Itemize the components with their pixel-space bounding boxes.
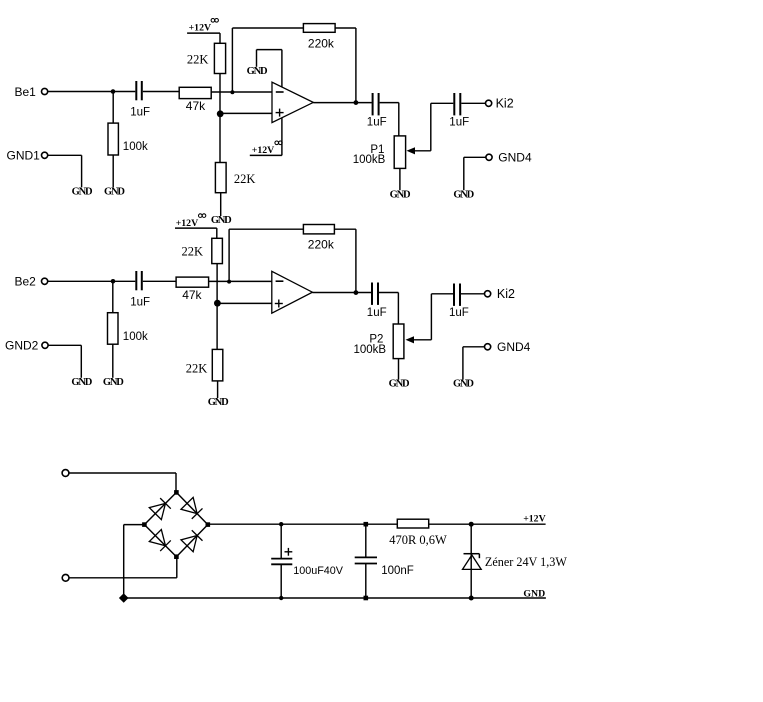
- svg-text:GND: GND: [211, 215, 232, 226]
- wire U1 top pin: [281, 50, 283, 88]
- svg-text:Ki2: Ki2: [497, 287, 515, 301]
- wire 100uF bottom: [280, 564, 282, 598]
- junction feedback tap stage1: [230, 90, 234, 94]
- junction zener bottom: [469, 596, 474, 601]
- wire 100nF bottom: [365, 564, 367, 599]
- svg-text:1uF: 1uF: [130, 297, 150, 309]
- svg-text:47k: 47k: [182, 288, 202, 302]
- svg-text:GND: GND: [390, 189, 411, 200]
- wire 47k to op-amp inverting input: [211, 91, 272, 93]
- wire into ground text: [256, 50, 258, 67]
- node AC input terminal bottom: [62, 574, 69, 581]
- svg-text:GND: GND: [453, 189, 474, 200]
- node Ki2 terminal stage2: [485, 291, 491, 297]
- wire C1 to R 47k: [143, 91, 179, 93]
- wire 100k to ground: [112, 155, 114, 187]
- node AC input terminal top: [62, 470, 69, 477]
- capacitor C 1uF input stage2: [135, 271, 137, 290]
- wire GND2 down: [80, 345, 82, 378]
- wire U2 output: [312, 292, 371, 294]
- wire junction down to R 100k: [112, 92, 114, 124]
- wire +12V down to R 22K stage2: [216, 228, 218, 238]
- wire AC bottom right: [69, 577, 177, 579]
- junction 100nF top: [364, 522, 369, 527]
- op-amp U2 plus sign: [275, 303, 283, 305]
- svg-text:Be1: Be1: [15, 85, 37, 99]
- diode D4 bridge bottom-to-right: [181, 536, 197, 552]
- wire bridge edge bottom-left: [144, 525, 176, 557]
- wire cap to Ki2: [461, 102, 485, 104]
- wire GND4 down stage2: [462, 347, 464, 380]
- wire feedback top stage2: [229, 228, 303, 230]
- junction bridge top corner: [174, 490, 179, 495]
- wire cap to Ki2 stage2: [461, 293, 485, 295]
- wire cap to P1: [380, 102, 399, 104]
- svg-text:22K: 22K: [187, 52, 209, 66]
- zener cathode bar: [464, 553, 480, 555]
- resistor 47k stage1: [179, 87, 211, 98]
- svg-text:Be2: Be2: [15, 275, 37, 289]
- wire AC top down to bridge: [175, 473, 177, 492]
- resistor 22K lower stage2: [212, 349, 223, 381]
- wire 100k to ground stage2: [112, 344, 114, 378]
- wire U1 top pin left: [257, 49, 282, 51]
- wire GND1 right: [48, 154, 82, 156]
- wire wiper to C out stage2: [431, 293, 453, 295]
- svg-text:100uF40V: 100uF40V: [293, 565, 344, 577]
- wire bridge minus down: [123, 525, 125, 598]
- capacitor Ki2 1uF stage2: [453, 284, 455, 306]
- wire P1 wiper: [414, 150, 431, 152]
- wire bridge edge top-right: [176, 492, 207, 524]
- junction bridge left corner: [142, 522, 147, 527]
- svg-text:GND: GND: [208, 397, 229, 408]
- svg-text:GND: GND: [389, 379, 410, 390]
- svg-text:1uF: 1uF: [367, 307, 387, 319]
- svg-text:GND: GND: [72, 186, 93, 197]
- svg-text:22K: 22K: [182, 245, 204, 259]
- node Be2 input terminal: [42, 278, 48, 284]
- junction zener top: [469, 522, 474, 527]
- svg-text:GND: GND: [104, 186, 125, 197]
- resistor 22K upper stage2: [212, 238, 223, 263]
- wire feedback up stage2: [228, 229, 230, 281]
- wire to op-amp noninverting input stage2: [217, 302, 271, 304]
- wire 220k to output drop: [335, 27, 356, 29]
- wire +12V underline stage2: [175, 227, 217, 229]
- wire 100nF top: [365, 524, 367, 557]
- wire +12V underline below U1: [250, 154, 282, 156]
- svg-text:220k: 220k: [308, 36, 335, 50]
- node GND4 terminal stage1: [486, 154, 492, 160]
- capacitor Ki2 1uF stage1: [453, 93, 455, 115]
- capacitor output 1uF stage2: [371, 283, 373, 305]
- wire GND4 down stage1: [463, 157, 465, 190]
- svg-text:1uF: 1uF: [449, 307, 469, 319]
- node GND4 terminal stage2: [485, 344, 491, 350]
- resistor 470R: [397, 519, 428, 528]
- infinity mark top stage1: [211, 19, 215, 23]
- wire down to P2: [397, 293, 399, 325]
- wire bridge left corner out: [124, 524, 145, 526]
- wire P1 to ground: [399, 168, 401, 190]
- potentiometer P1 body: [394, 136, 405, 169]
- junction bridge right corner: [206, 522, 211, 527]
- svg-text:+12V: +12V: [252, 145, 274, 156]
- wire bias chain stage2: [216, 264, 218, 350]
- wire 220k to output drop stage2: [334, 228, 356, 230]
- svg-text:100kB: 100kB: [354, 344, 387, 356]
- wire +12V down to R 22K: [219, 33, 221, 43]
- junction feedback tap stage2: [227, 280, 231, 284]
- wire 47k to op-amp inverting input stage2: [209, 280, 272, 282]
- junction 100uF bottom: [279, 596, 283, 600]
- P1 wiper arrow: [407, 147, 416, 154]
- wire bias chain stage1: [219, 74, 221, 163]
- wire Be2 to input junction: [48, 280, 113, 282]
- infinity mark top stage2: [199, 214, 203, 218]
- wire GND2 right: [48, 344, 81, 346]
- diode D2 bridge top-to-right: [181, 497, 197, 513]
- svg-text:100k: 100k: [123, 141, 148, 153]
- wire P2 wiper: [413, 339, 431, 341]
- wire U1 bottom pin: [281, 118, 283, 155]
- junction noninverting node stage1: [217, 110, 224, 117]
- wire bridge edge bottom-right: [176, 525, 207, 557]
- svg-text:47k: 47k: [186, 99, 206, 113]
- resistor 100k stage1: [108, 123, 118, 155]
- svg-text:GND4: GND4: [497, 340, 531, 354]
- wire feedback down to output: [355, 28, 357, 103]
- wire AC bottom up to bridge: [176, 557, 178, 578]
- wire GND4 left stage1: [464, 156, 486, 158]
- svg-text:100nF: 100nF: [381, 565, 414, 577]
- wire bridge edge top-left: [144, 492, 176, 524]
- junction noninverting node stage2: [214, 300, 221, 307]
- op-amp U2 triangle: [272, 271, 313, 313]
- svg-text:1uF: 1uF: [449, 117, 469, 129]
- node Be1 input terminal: [42, 88, 48, 94]
- svg-text:GND4: GND4: [498, 151, 532, 165]
- svg-text:GND2: GND2: [5, 339, 39, 353]
- P2 wiper arrow: [406, 336, 415, 343]
- junction input node stage2: [111, 279, 116, 284]
- svg-text:GND: GND: [453, 379, 474, 390]
- svg-text:Ki2: Ki2: [496, 97, 514, 111]
- wire wiper up stage2: [430, 294, 432, 340]
- svg-text:470R 0,6W: 470R 0,6W: [389, 533, 447, 547]
- node GND2 terminal: [42, 342, 48, 348]
- 100uF plus sign: [285, 551, 293, 553]
- svg-text:22K: 22K: [186, 362, 208, 376]
- svg-text:+12V: +12V: [189, 23, 211, 34]
- op-amp U1 triangle: [272, 82, 313, 122]
- wire C to R 47k stage2: [143, 280, 176, 282]
- wire U1 output: [313, 102, 372, 104]
- resistor 100k stage2: [108, 313, 119, 345]
- wire junction to C1: [113, 91, 135, 93]
- wire GND4 left stage2: [463, 346, 485, 348]
- wire feedback up stage1: [231, 28, 233, 92]
- wire feedback down to output stage2: [355, 229, 357, 292]
- diode D1 bridge left-to-top: [149, 503, 165, 519]
- svg-text:100k: 100k: [123, 331, 148, 343]
- wire 100uF top: [280, 524, 282, 558]
- svg-text:GND1: GND1: [7, 148, 41, 162]
- junction 100uF top: [279, 522, 283, 526]
- resistor 220k stage1: [303, 24, 335, 33]
- wire to op-amp noninverting input: [220, 112, 272, 114]
- wire P2 to ground: [398, 359, 400, 380]
- wire feedback top stage1: [232, 27, 303, 29]
- capacitor 100uF plates: [271, 558, 292, 560]
- node Ki2 terminal stage1: [486, 100, 492, 106]
- junction output node stage2: [354, 290, 359, 295]
- wire AC top right: [69, 472, 176, 474]
- junction output node stage1: [354, 100, 359, 105]
- infinity mark below U1: [275, 141, 279, 145]
- wire plus rail left: [208, 523, 397, 525]
- node GND1 terminal: [42, 152, 48, 158]
- op-amp U1 plus sign: [276, 112, 284, 114]
- svg-text:GND: GND: [71, 377, 92, 388]
- op-amp U2 minus sign: [276, 280, 284, 282]
- resistor 220k stage2: [303, 225, 334, 234]
- svg-text:22K: 22K: [234, 172, 256, 186]
- wire zener: [470, 524, 472, 598]
- wire junction to C1 stage2: [113, 280, 135, 282]
- resistor 22K upper stage1: [214, 43, 225, 73]
- capacitor 100nF plates: [355, 556, 377, 558]
- potentiometer P2 body: [393, 324, 404, 359]
- wire wiper up: [430, 103, 432, 151]
- capacitor C1 1uF stage1: [135, 81, 137, 100]
- wire plus rail right: [429, 523, 546, 525]
- junction bridge bottom corner: [174, 554, 179, 559]
- wire wiper to C out: [431, 102, 454, 104]
- capacitor output 1uF stage1: [372, 93, 374, 115]
- wire 22K lower to ground stage2: [217, 381, 219, 398]
- diode D3 bridge left-to-bottom: [149, 530, 165, 546]
- wire 22K lower to ground: [220, 193, 222, 216]
- svg-text:GND: GND: [523, 588, 545, 599]
- wire down to P1: [398, 103, 400, 136]
- resistor 22K lower stage1: [215, 163, 226, 193]
- wire +12V underline stage1: [187, 32, 220, 34]
- svg-text:+12V: +12V: [523, 514, 545, 525]
- zener diode DZ triangle: [463, 555, 482, 569]
- wire GND1 down: [81, 155, 83, 187]
- wire cap to P2: [379, 292, 398, 294]
- wire Be1 to input junction: [48, 91, 113, 93]
- svg-text:GND: GND: [247, 66, 268, 77]
- svg-text:Zéner 24V 1,3W: Zéner 24V 1,3W: [485, 555, 568, 569]
- svg-text:100kB: 100kB: [353, 154, 386, 166]
- svg-text:1uF: 1uF: [367, 117, 387, 129]
- svg-text:GND: GND: [103, 377, 124, 388]
- resistor 47k stage2: [176, 277, 209, 287]
- svg-text:220k: 220k: [308, 238, 335, 252]
- wire junction down to R 100k stage2: [112, 281, 114, 312]
- svg-text:1uF: 1uF: [130, 107, 150, 119]
- junction 100nF bottom: [364, 596, 369, 601]
- junction input node stage1: [111, 89, 116, 94]
- wire ground rail: [124, 597, 546, 599]
- op-amp U1 minus sign: [276, 91, 284, 93]
- junction ground rail diamond: [119, 593, 129, 603]
